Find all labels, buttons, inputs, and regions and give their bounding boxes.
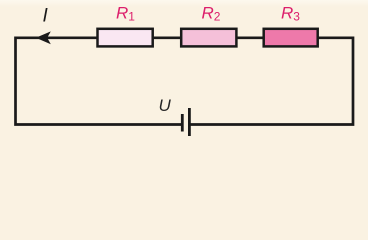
battery U: long plate (right): [188, 108, 191, 136]
current arrow (points left along top wire): [36, 31, 51, 44]
resistor R3: [264, 29, 318, 47]
resistor R2: [181, 29, 236, 47]
wire: top-left segment with left vertical and bottom-left run to battery: [16, 38, 182, 125]
svg-text:I: I: [43, 6, 49, 27]
battery U: short plate (left): [181, 114, 184, 132]
wire: between R2 and R3: [237, 36, 265, 39]
svg-text:U: U: [159, 96, 172, 115]
wire: between R1 and R2: [153, 36, 182, 39]
resistor R1: [98, 29, 153, 47]
wire: right loop from R3 down and along bottom to battery: [190, 38, 353, 125]
